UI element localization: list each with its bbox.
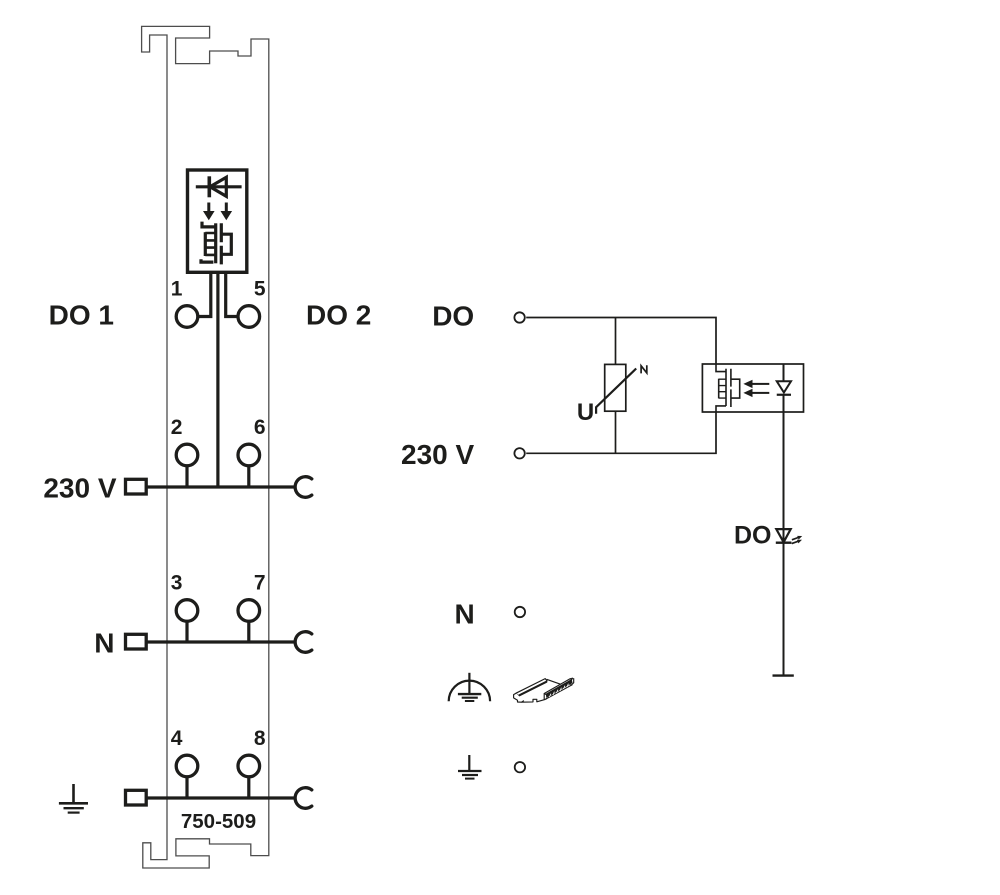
svg-text:DO: DO <box>432 301 474 332</box>
hook contact N <box>295 632 312 653</box>
svg-text:N: N <box>454 599 474 630</box>
terminal bar end of LED branch <box>773 674 794 676</box>
svg-text:2: 2 <box>171 416 183 439</box>
terminal pin 3 <box>176 600 198 622</box>
stub pin 3 to N rail <box>185 621 188 642</box>
optocoupler U2 box <box>702 364 803 412</box>
svg-text:6: 6 <box>254 416 266 439</box>
LED light ray upper <box>792 536 802 540</box>
terminal pin 8 <box>238 755 260 777</box>
hook contact 230V <box>295 477 312 498</box>
opto-triac block U1 box <box>188 170 247 272</box>
light arrow upper <box>743 380 769 388</box>
terminal circle PE <box>515 762 525 772</box>
terminal pin 5 <box>238 306 260 328</box>
wire LED branch down <box>783 412 785 676</box>
terminal pin 6 <box>238 444 260 466</box>
light arrow lower <box>743 389 769 397</box>
terminal pin 7 <box>238 600 260 622</box>
svg-text:4: 4 <box>171 727 183 750</box>
stub pin 6 to 230V rail <box>247 466 250 487</box>
terminal circle DO <box>514 312 524 322</box>
varistor tick mark <box>641 365 647 373</box>
svg-text:N: N <box>94 628 114 659</box>
DIN rail icon <box>514 678 574 703</box>
wire PE rail <box>146 796 296 799</box>
functional earth dome symbol <box>449 673 490 702</box>
svg-text:230 V: 230 V <box>401 439 474 470</box>
diode D1 inside block (LED of opto) <box>196 176 242 197</box>
wire N rail <box>146 640 296 643</box>
terminal pin 2 <box>176 444 198 466</box>
terminal pin 4 <box>176 755 198 777</box>
wire DO <box>526 318 716 365</box>
terminal circle N <box>515 607 525 617</box>
varistor diagonal stroke <box>596 369 636 414</box>
hook contact PE <box>295 788 312 809</box>
wire block to pin 1 <box>199 272 211 316</box>
terminal pin 1 <box>176 306 198 328</box>
LED D2 in optocoupler <box>777 364 791 412</box>
wire DO to varistor <box>615 318 617 365</box>
svg-text:8: 8 <box>254 727 266 750</box>
LED light ray lower <box>792 540 802 544</box>
stub pin 8 to PE rail <box>247 777 250 798</box>
varistor RV1 body <box>605 364 626 411</box>
svg-text:3: 3 <box>171 572 183 595</box>
stub pin 4 to PE rail <box>185 777 188 798</box>
light arrow left <box>203 203 215 221</box>
connector square PE <box>126 790 147 805</box>
earth symbol (detail) <box>458 755 482 779</box>
stub pin 7 to N rail <box>247 621 250 642</box>
wire block to 230V rail <box>216 272 219 487</box>
svg-text:1: 1 <box>171 278 183 301</box>
module 750-509 body outline <box>142 26 269 868</box>
svg-text:DO 2: DO 2 <box>306 300 371 331</box>
wire varistor to 230V <box>615 411 617 453</box>
terminal circle 230V <box>514 448 524 458</box>
svg-text:750-509: 750-509 <box>181 810 256 833</box>
ground symbol left <box>59 784 88 813</box>
svg-text:DO 1: DO 1 <box>49 300 114 331</box>
light arrow right <box>221 203 233 221</box>
connector square 230V <box>126 479 147 494</box>
LED indicator D3 <box>776 529 792 543</box>
svg-text:U: U <box>577 399 594 426</box>
svg-text:5: 5 <box>254 278 266 301</box>
triac Q1 inside block <box>201 222 231 265</box>
svg-text:230 V: 230 V <box>43 473 116 504</box>
connector square N <box>126 634 147 649</box>
wire 230V <box>526 412 716 453</box>
svg-text:DO: DO <box>734 522 772 550</box>
svg-text:7: 7 <box>254 572 266 595</box>
wire block to pin 5 <box>226 272 238 316</box>
wire 230V rail <box>146 485 296 488</box>
triac Q2 in optocoupler <box>716 364 740 412</box>
stub pin 2 to 230V rail <box>185 466 188 487</box>
